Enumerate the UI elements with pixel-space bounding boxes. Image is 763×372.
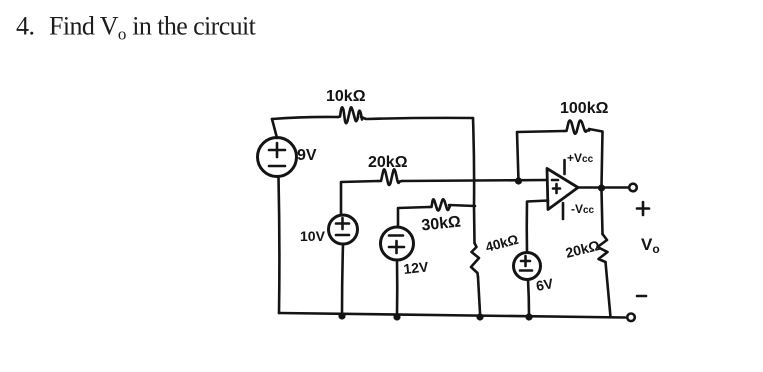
- wire 9V bottom stem: [277, 177, 280, 313]
- wire 20k to op-amp minus: [402, 180, 547, 181]
- op-amp +Vcc pin: [563, 160, 566, 174]
- resistor R 20k output vertical: [598, 234, 608, 262]
- output plus sign: [637, 202, 649, 215]
- wire feedback riser: [517, 131, 564, 181]
- resistor R 40k vertical: [471, 243, 479, 277]
- svg-text:100kΩ: 100kΩ: [560, 100, 609, 117]
- svg-text:-Vcc: -Vcc: [571, 202, 595, 216]
- wire 20k level horizontal: [341, 181, 378, 215]
- wire top left horizontal: [272, 117, 338, 119]
- svg-text:+Vcc: +Vcc: [567, 151, 594, 165]
- op-amp -Vcc pin: [562, 203, 565, 219]
- svg-text:12V: 12V: [403, 258, 430, 277]
- terminal top right: [629, 184, 637, 192]
- wire 6V bottom stem: [528, 280, 529, 316]
- voltage source 9V: [258, 138, 297, 177]
- svg-text:10V: 10V: [300, 228, 326, 244]
- wire 6V top stem to op-amp plus: [527, 201, 548, 253]
- resistor R 30k: [429, 199, 450, 210]
- resistor R 10k: [338, 107, 362, 123]
- wire 30k to vertical node: [449, 205, 475, 206]
- voltage source 12V: [381, 227, 414, 260]
- wire 9V top stem: [272, 119, 277, 138]
- output minus sign: [637, 295, 646, 298]
- wire output down branch: [602, 190, 603, 234]
- wire 40k branch lower: [478, 277, 480, 313]
- svg-text:30kΩ: 30kΩ: [421, 213, 462, 234]
- node dot 10V: [338, 312, 345, 319]
- wire 10V bottom stem: [342, 244, 343, 314]
- svg-text:40kΩ: 40kΩ: [484, 232, 520, 255]
- wire op-amp output: [578, 186, 629, 189]
- node dot 40k: [476, 313, 483, 320]
- resistor R 100k: [564, 121, 589, 134]
- svg-text:10kΩ: 10kΩ: [326, 88, 366, 105]
- node dot inverting input: [515, 177, 522, 184]
- svg-text:6V: 6V: [535, 275, 555, 294]
- wire bottom rail: [279, 313, 625, 318]
- wire 12V bottom stem: [396, 260, 399, 315]
- voltage source 10V: [329, 215, 358, 244]
- wire top right horizontal: [361, 117, 473, 119]
- svg-text:4.: 4.: [16, 12, 35, 41]
- svg-text:20kΩ: 20kΩ: [368, 154, 408, 171]
- node dot 12V: [393, 313, 400, 320]
- node dot 6V: [525, 313, 532, 320]
- wire right vertical from 10k to 30k node: [473, 118, 474, 206]
- svg-text:Find Vo in the circuit: Find Vo in the circuit: [49, 12, 257, 44]
- svg-text:20kΩ: 20kΩ: [564, 237, 601, 261]
- svg-text:9V: 9V: [297, 147, 317, 164]
- svg-text:Vo: Vo: [641, 235, 660, 256]
- wire 100k to output: [589, 129, 603, 186]
- wire 12V stem up: [398, 207, 429, 227]
- node dot output: [598, 184, 605, 191]
- wire 20k output lower: [606, 262, 611, 317]
- op-amp U1: [547, 169, 578, 210]
- terminal bottom right: [627, 314, 635, 322]
- voltage source 6V: [514, 253, 541, 280]
- wire 40k branch upper: [473, 206, 476, 243]
- resistor R 20k: [378, 169, 402, 185]
